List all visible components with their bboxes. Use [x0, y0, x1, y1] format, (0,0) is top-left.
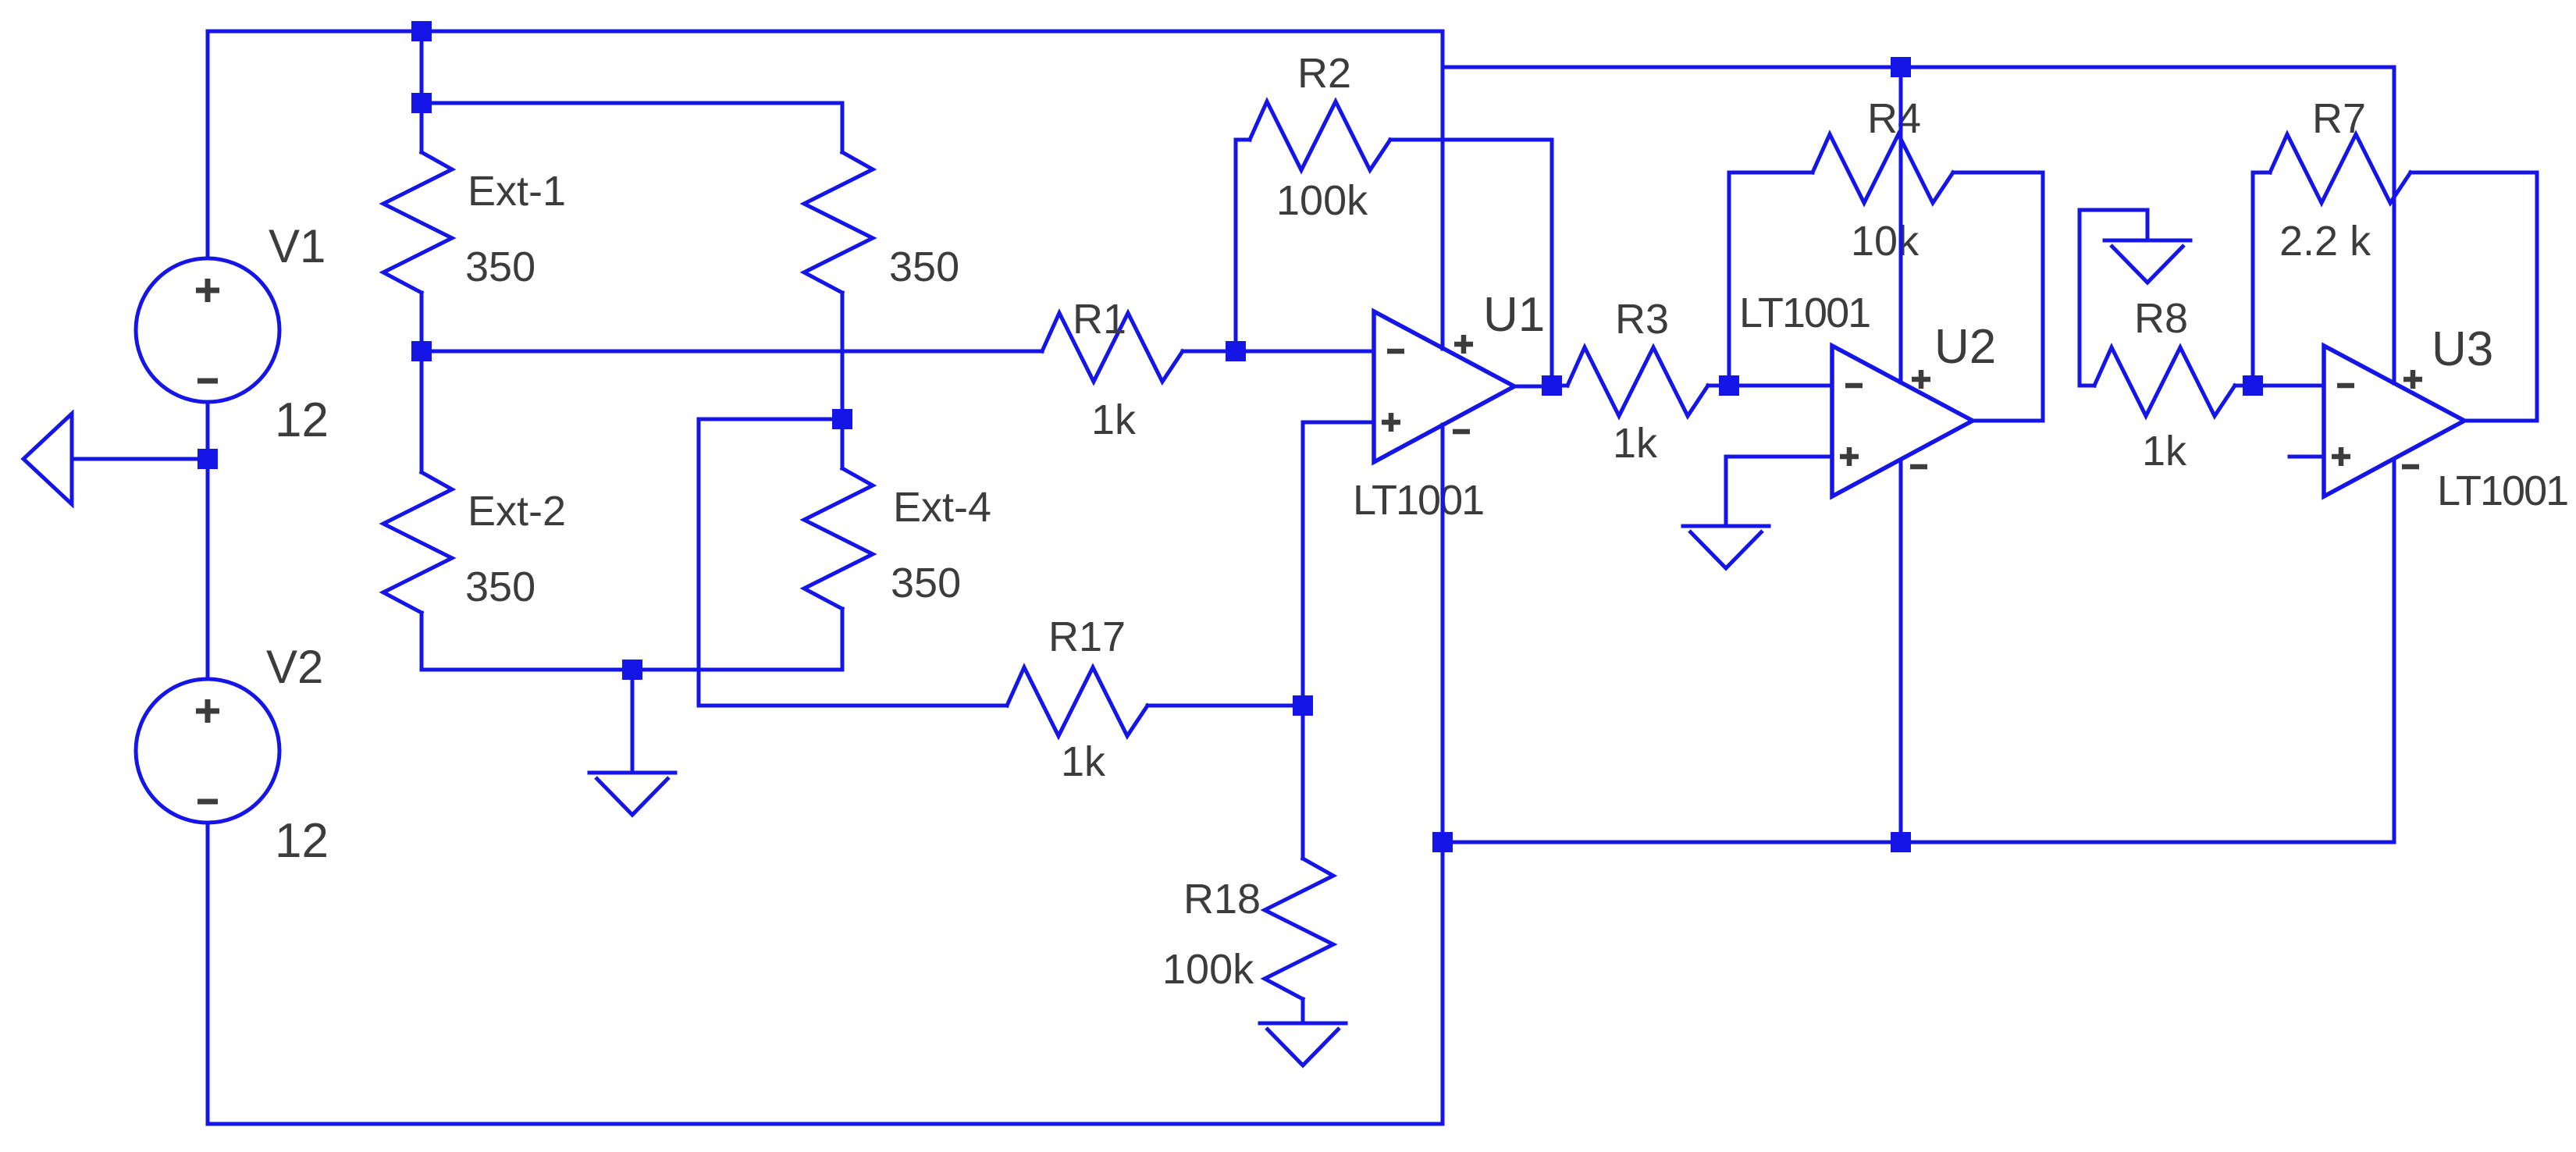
svg-text:10k: 10k [1851, 218, 1920, 265]
junction U1 inverting input node [1226, 341, 1246, 361]
value 2.2 k of R7 [2279, 218, 2371, 265]
junction bridge bottom ground tap [622, 660, 642, 680]
svg-text:2.2 k: 2.2 k [2279, 218, 2371, 265]
label U1 [1483, 288, 1545, 342]
wire mid node to V2 plus [206, 459, 210, 679]
svg-text:R4: R4 [1867, 95, 1921, 142]
label U3 [2432, 322, 2493, 376]
label R18 [1183, 876, 1261, 923]
svg-text:12: 12 [275, 393, 329, 447]
U2 inverting input marker [1845, 383, 1863, 389]
wire to U3 inverting input [2253, 384, 2324, 388]
resistor R17 [1007, 667, 1303, 736]
resistor R2 [1250, 101, 1390, 170]
wire to U2 inverting input [1729, 384, 1832, 388]
wire R8 left hook to ground flag [2080, 210, 2147, 386]
svg-text:1k: 1k [1061, 738, 1106, 785]
svg-text:R17: R17 [1048, 613, 1126, 660]
label R7 [2312, 95, 2366, 142]
ground symbol under R18 [1260, 1023, 1346, 1065]
net flag arrow (0V reference) [23, 414, 72, 504]
wire U2 non-inverting input to ground [1726, 457, 1832, 526]
svg-text:V1: V1 [269, 220, 326, 272]
label R1 [1073, 296, 1126, 343]
wire R4 right to U2 output [1953, 172, 2043, 421]
U1 V+ supply marker [1454, 335, 1473, 354]
resistor R3 [1552, 347, 1729, 416]
resistor Ext-1 [383, 103, 452, 351]
junction U2 inverting input node [1719, 375, 1739, 396]
label LT1001 of U3 [2437, 468, 2567, 514]
resistor R4 [1813, 134, 1953, 203]
svg-text:R2: R2 [1297, 50, 1351, 97]
svg-text:12: 12 [275, 814, 329, 868]
U1 inverting input marker [1387, 349, 1404, 354]
svg-text:LT1001: LT1001 [2437, 468, 2567, 514]
wire V+ rail to U2 U3 supplies [1443, 67, 2394, 383]
wire U2 V- supply drop [1899, 460, 1903, 842]
svg-text:350: 350 [891, 560, 961, 606]
wire V1 minus to mid node [206, 402, 210, 459]
U3 V+ supply marker [2403, 370, 2422, 389]
voltage source V1 body [136, 258, 279, 402]
label R3 [1615, 296, 1669, 343]
svg-text:1k: 1k [2142, 428, 2187, 475]
U2 non-inverting input marker [1840, 447, 1859, 466]
U1 non-inverting input marker [1382, 413, 1400, 432]
svg-text:350: 350 [465, 244, 535, 290]
label R8 [2134, 295, 2188, 342]
label Ext-1 [468, 168, 566, 215]
ground symbol under bridge [589, 773, 675, 815]
U3 non-inverting input marker [2332, 447, 2350, 466]
value 350 of top right arm [889, 244, 959, 290]
junction R17 R18 node [1293, 695, 1313, 716]
svg-text:R1: R1 [1073, 296, 1126, 343]
junction V- rail at U2 supply [1891, 832, 1911, 852]
junction V+ rail at U2 supply [1891, 57, 1911, 77]
wire U3 non-inverting input stub [2290, 455, 2324, 459]
resistor Ext-2 [383, 351, 452, 670]
junction bridge top node [411, 93, 432, 113]
svg-text:Ext-1: Ext-1 [468, 168, 566, 215]
svg-text:R3: R3 [1615, 296, 1669, 343]
label Ext-2 [468, 488, 566, 535]
junction V+ rail at bridge feed [411, 21, 432, 41]
resistor R8 [2080, 347, 2253, 416]
value 12 of V2 [275, 814, 329, 868]
resistor R7 [2270, 134, 2411, 203]
wire U2 V+ supply drop [1899, 67, 1903, 382]
wire R4 left drop [1729, 172, 1813, 386]
wire R2 right to U1 output [1390, 140, 1552, 386]
svg-text:350: 350 [889, 244, 959, 290]
ground symbol at U2 non-inverting input [1683, 526, 1769, 568]
label V2 [266, 641, 323, 693]
op-amp U3 triangle [2324, 346, 2464, 496]
ground symbol above R8 [2105, 240, 2190, 283]
U3 V- supply marker [2402, 464, 2419, 470]
junction bridge right mid node [832, 409, 852, 429]
value 1k of R17 [1061, 738, 1106, 785]
U2 V- supply marker [1910, 464, 1927, 470]
wire bridge top rail [422, 103, 842, 152]
wire mid node to net flag [72, 457, 197, 461]
label R4 [1867, 95, 1921, 142]
wire R7 right to U3 output [2411, 172, 2537, 421]
wire ground stem of bridge [631, 670, 635, 773]
svg-text:1k: 1k [1091, 396, 1137, 443]
svg-text:U2: U2 [1934, 320, 1996, 374]
value 10k of R4 [1851, 218, 1920, 265]
svg-text:1k: 1k [1613, 420, 1658, 467]
value 350 of Ext-2 [465, 564, 535, 610]
svg-text:350: 350 [465, 564, 535, 610]
label R2 [1297, 50, 1351, 97]
wire U1 output [1514, 385, 1552, 389]
wire U2 output [1973, 419, 2043, 423]
label LT1001 of U2 [1739, 290, 1870, 336]
wire R2 left drop [1236, 140, 1250, 351]
svg-text:U3: U3 [2432, 322, 2493, 376]
op-amp U1 triangle [1374, 311, 1514, 462]
wire U1 non-inverting input from R17 node [1303, 422, 1374, 706]
label LT1001 of U1 [1353, 477, 1483, 524]
wire to U1 inverting input [1236, 350, 1374, 354]
op-amp U2 triangle [1832, 346, 1973, 496]
wire bridge bottom rail [422, 668, 842, 672]
value 1k of R3 [1613, 420, 1658, 467]
resistor 350 top right bridge arm [804, 152, 873, 419]
wire bridge feed drop [420, 31, 424, 103]
svg-text:Ext-4: Ext-4 [893, 484, 991, 531]
voltage source V2 body [136, 679, 279, 823]
value 100k of R2 [1276, 177, 1368, 224]
value 1k of R1 [1091, 396, 1137, 443]
resistor R1 [1042, 313, 1236, 382]
wire R7 left drop [2253, 172, 2270, 386]
label U2 [1934, 320, 1996, 374]
junction U3 inverting input node [2243, 375, 2263, 396]
resistor Ext-4 [804, 419, 873, 670]
svg-text:V2: V2 [266, 641, 323, 693]
svg-text:LT1001: LT1001 [1353, 477, 1483, 524]
wire bridge left mid to R1 [422, 350, 1042, 354]
value 12 of V1 [275, 393, 329, 447]
wire bridge right mid loop to R17 [699, 419, 1007, 706]
svg-text:R8: R8 [2134, 295, 2188, 342]
wire U1 V- supply drop [1441, 425, 1445, 842]
junction U1 output node [1542, 375, 1562, 396]
junction mid node between V1 and V2 [197, 449, 218, 469]
svg-text:Ext-2: Ext-2 [468, 488, 566, 535]
svg-text:100k: 100k [1276, 177, 1368, 224]
svg-text:R7: R7 [2312, 95, 2366, 142]
wire V2 minus down to bottom rail [208, 823, 1443, 1124]
svg-text:LT1001: LT1001 [1739, 290, 1870, 336]
U3 inverting input marker [2337, 383, 2354, 389]
resistor R18 [1265, 706, 1333, 1023]
svg-text:R18: R18 [1183, 876, 1261, 923]
label V1 [269, 220, 326, 272]
label R17 [1048, 613, 1126, 660]
value 350 of Ext-1 [465, 244, 535, 290]
value 1k of R8 [2142, 428, 2187, 475]
wire V+ top rail to U1 supply drop [208, 31, 1443, 349]
wire V- rail [1443, 459, 2394, 842]
svg-text:100k: 100k [1162, 946, 1254, 993]
value 350 of Ext-4 [891, 560, 961, 606]
label Ext-4 [893, 484, 991, 531]
junction bridge left mid node [411, 341, 432, 361]
value 100k of R18 [1162, 946, 1254, 993]
U2 V+ supply marker [1912, 370, 1930, 389]
junction V- rail at U1 supply [1432, 832, 1453, 852]
U1 V- supply marker [1453, 429, 1470, 435]
wire V1 plus up to V+ rail [206, 31, 210, 258]
svg-text:U1: U1 [1483, 288, 1545, 342]
